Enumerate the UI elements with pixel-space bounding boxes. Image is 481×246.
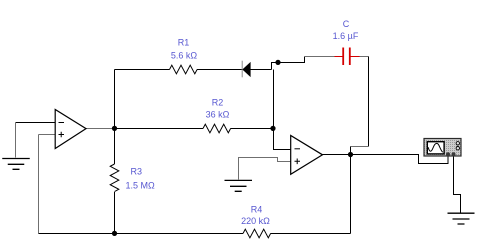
node B junction dot [275, 60, 280, 65]
resistor R2 [203, 124, 231, 133]
wire jog up to node B [272, 63, 278, 70]
wire R3 vertical bottom lead [114, 192, 116, 234]
value 1.6 uF [333, 31, 359, 41]
svg-text:1.6 µF: 1.6 µF [333, 31, 359, 41]
svg-text:R1: R1 [178, 38, 190, 48]
wire capacitor left lead run (gray) [305, 56, 335, 58]
value 36 kOhm [206, 110, 230, 120]
ground G3 (right) [448, 213, 475, 224]
wire R1 row from corner to diode and to jog [115, 69, 272, 71]
wire op2 plus to ground (gray) [239, 158, 291, 180]
wire output node to scope [351, 155, 449, 164]
svg-text:C: C [343, 19, 350, 29]
wire node C down to op2 minus input [274, 128, 291, 150]
node E bottom junction dot [112, 231, 117, 236]
label R4 [251, 205, 263, 215]
wire into output node from capacitor branch [350, 147, 352, 155]
wire op2 output stub [323, 154, 351, 156]
resistor R4 [243, 229, 271, 238]
value 5.6 kOhm [171, 51, 198, 61]
wire op1 output stub (gray) [86, 128, 115, 130]
svg-text:36 kΩ: 36 kΩ [206, 110, 230, 120]
wire top-left vertical from node A up to R1 wire [114, 70, 116, 129]
wire bottom row with R4 [39, 233, 351, 235]
svg-text:R4: R4 [251, 205, 263, 215]
op-amp U2 [291, 136, 323, 175]
wire bottom-right vertical up to output node [350, 155, 352, 234]
wire op1 plus input horizontal (gray) [39, 134, 56, 136]
node D output junction dot [348, 152, 353, 157]
wire R3 vertical top lead [114, 128, 116, 164]
wire node B to capacitor step [278, 57, 305, 63]
label R3 [131, 167, 143, 177]
svg-text:R3: R3 [131, 167, 143, 177]
svg-text:220 kΩ: 220 kΩ [241, 216, 270, 226]
node A junction dot [112, 126, 117, 131]
wire op1 minus to ground vertical (gray) [15, 123, 17, 158]
wire capacitor right lead run (gray) [360, 56, 369, 58]
svg-text:1.5 MΩ: 1.5 MΩ [126, 181, 156, 191]
resistor R1 [170, 65, 198, 74]
label R1 [178, 38, 190, 48]
diode D1 [242, 61, 250, 78]
ground G1 (left) [2, 159, 30, 170]
svg-text:R2: R2 [212, 98, 224, 108]
label R2 [212, 98, 224, 108]
value 1.5 MOhm [126, 181, 156, 191]
wire R2 row [115, 128, 273, 130]
wire scope terminal B down to right ground [454, 156, 461, 213]
wire op1 minus input horizontal [16, 122, 56, 124]
capacitor C [335, 48, 360, 66]
node C junction dot [270, 126, 275, 131]
wire from diode corner down to node C [273, 70, 275, 129]
resistor R3 [110, 164, 119, 192]
wire capacitor branch bottom jog (gray) [351, 146, 369, 148]
ground G2 (middle) [225, 180, 253, 191]
wire capacitor branch right vertical down [368, 57, 370, 147]
svg-text:5.6 kΩ: 5.6 kΩ [171, 51, 198, 61]
op-amp U1 [55, 110, 86, 149]
oscilloscope XSC1 [424, 139, 461, 157]
label C [343, 19, 350, 29]
value 220 kOhm [241, 216, 270, 226]
wire op1 plus feedback vertical (gray) [38, 135, 40, 234]
